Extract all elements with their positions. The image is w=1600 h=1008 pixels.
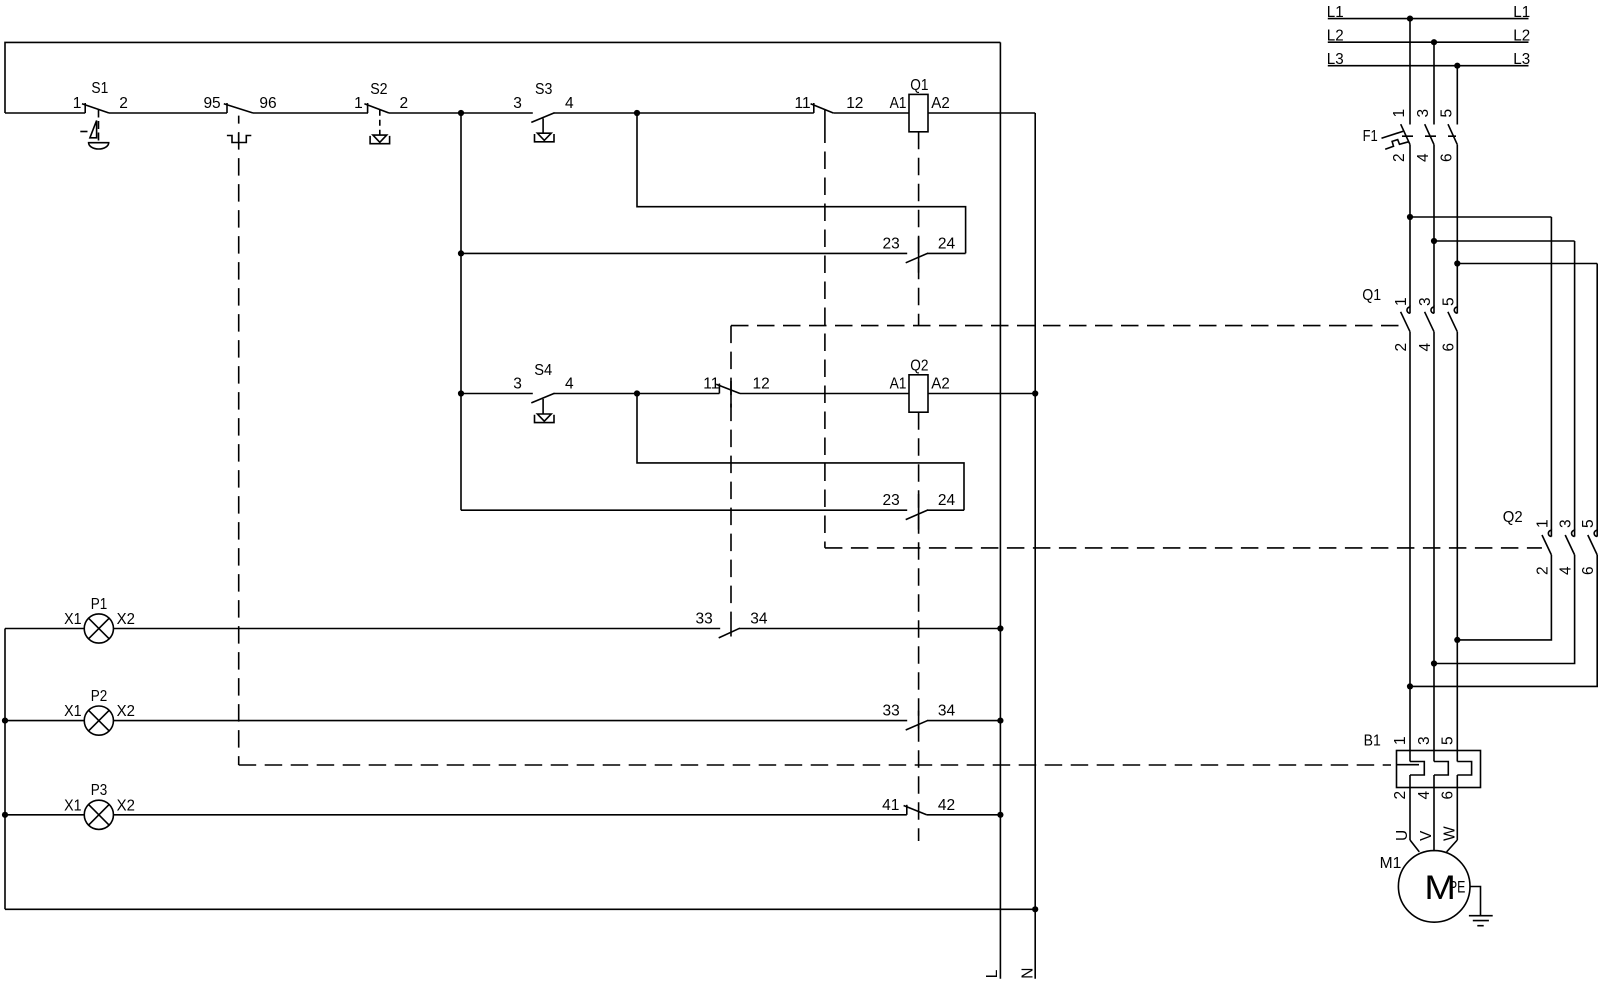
supply rail L1 [1328,18,1529,20]
auxiliary contact Q2 23-24 (NO) latch rung2 [906,510,928,520]
contactor Q2 power contacts, 3 poles [1550,529,1552,537]
mechanical linkage dashed: Q1 horizontal to power contacts [731,325,1401,327]
svg-text:X1: X1 [64,611,81,628]
mechanical linkage dashed: Q2 coil down through latch2, P2, P3 [918,412,920,841]
wire: P1 rung right segment to L rail [739,628,1000,630]
wire: P3 rung left segment [5,814,84,816]
svg-text:S4: S4 [534,362,552,379]
indicator lamp P1 [84,614,113,643]
wire: rung1 S1 to F1 aux 95 [109,112,227,114]
node: L1 tap [1407,16,1413,22]
wire: rung2 to coil Q2 [740,393,909,395]
svg-text:5: 5 [1438,109,1455,118]
auxiliary contact Q1 23-24 (NO) latch rung1 [906,253,928,263]
svg-text:W: W [1441,826,1458,841]
thermal overload actuator symbol on F1 aux [227,136,251,143]
svg-text:4: 4 [565,95,574,112]
svg-text:Q2: Q2 [910,358,928,375]
svg-text:U: U [1394,830,1411,841]
svg-text:96: 96 [259,95,276,112]
mechanical linkage dashed: Q1 coil down [918,132,920,326]
node: junction P3 rung / L rail [997,812,1003,818]
svg-text:4: 4 [1415,153,1432,162]
svg-text:24: 24 [938,492,956,509]
wire: P2 rung right segment to L rail [927,720,1000,722]
svg-text:X2: X2 [117,703,135,720]
node: junction rung1 / latch branch 1 [634,110,640,116]
node: junction rung2 / latch branch 2 [634,390,640,396]
contact 41-42 in P3 rung [906,805,908,815]
svg-text:V: V [1418,830,1435,841]
indicator lamp P2 [84,706,113,735]
wire: latch2 horizontal [461,509,907,511]
svg-text:L2: L2 [1513,27,1530,44]
wire: latch branch from rung2 node down and over [637,394,964,511]
overload relay F1 auxiliary NC contact 95-96 [226,103,228,113]
svg-text:Q1: Q1 [1362,287,1381,304]
supply rail L2 [1328,41,1529,43]
svg-text:X2: X2 [117,611,135,628]
wire: rung1 96 to S2 [253,112,368,114]
svg-text:L1: L1 [1513,4,1530,21]
wire: latch2 right segment [927,509,964,511]
wire: Q2 branch drops [1550,217,1552,529]
svg-text:33: 33 [696,611,713,628]
wire: P3 rung right segment to L rail [927,814,1001,816]
svg-text:1: 1 [1534,519,1551,528]
svg-text:L3: L3 [1513,51,1530,68]
wire: rung1 S2 to S3 [389,112,533,114]
wire: P1 rung left segment [5,628,84,630]
thermal overload relay B1 [1397,751,1481,788]
svg-text:B1: B1 [1364,733,1381,750]
svg-text:X2: X2 [117,797,135,814]
wire: latch branch from rung1 node down and over [637,113,966,253]
svg-text:2: 2 [1393,343,1410,352]
svg-text:41: 41 [882,797,899,814]
supply rail L3 [1328,65,1529,67]
svg-text:L2: L2 [1327,27,1344,44]
svg-text:1: 1 [73,95,82,112]
node: L3 tap [1454,63,1460,69]
node: Q2 return to phase 1 [1407,683,1413,689]
interlock contact Q1 11-12 (NC) in rung2 [718,384,720,394]
svg-text:Q2: Q2 [1503,509,1523,526]
wire: rung1 coil Q1 to N rail [928,112,1035,114]
F1 latch line and thermal release symbol [1382,131,1404,138]
node: junction left drop / P3 rung [2,812,8,818]
svg-text:42: 42 [938,797,955,814]
svg-text:4: 4 [565,375,574,392]
svg-text:1: 1 [1393,297,1410,306]
wire: F1 to Q1 contactor verticals [1409,145,1411,307]
svg-text:2: 2 [400,95,409,112]
wire: left lamp drop [4,629,6,910]
svg-text:3: 3 [1558,519,1575,528]
node: tap to Q2 branch phase 1 [1407,214,1413,220]
contactor coil Q1 [909,94,928,131]
svg-text:1: 1 [1391,109,1408,118]
wire: Q2 outputs crossing back to phases [1457,555,1551,640]
svg-text:34: 34 [938,703,956,720]
wire: left drop x461 rung1 to latch2 [460,113,462,510]
svg-text:S2: S2 [370,81,387,98]
wire: rung1 S3 to Q2 interlock [554,112,814,114]
svg-text:33: 33 [883,703,900,720]
wire: P2 rung middle segment [114,720,908,722]
svg-text:5: 5 [1439,736,1456,745]
wire: phase drops to F1 [1409,19,1411,125]
wire: motor PE to earth [1470,887,1481,916]
node: junction left drop / latch1 [458,250,464,256]
svg-text:Q1: Q1 [910,77,928,94]
linkage solid tail into B1 box [1397,764,1420,766]
wire: latch1 right segment [927,252,965,254]
svg-text:4: 4 [1416,791,1433,800]
F1 pole linkage dashed [1402,135,1456,137]
svg-text:6: 6 [1438,153,1455,162]
node: tap to Q2 branch phase 2 [1431,238,1437,244]
wire: B1 outputs to motor [1409,775,1411,840]
wire: latch1 horizontal [461,252,907,254]
wire: bottom return to N [5,908,1035,910]
stop button S2 (NC) [367,103,369,113]
svg-text:X1: X1 [64,797,81,814]
wire: P2 rung left segment [5,720,84,722]
node: junction left drop / rung2 [458,390,464,396]
svg-text:95: 95 [203,95,220,112]
mechanical linkage dashed: Q2 from rung1 interlock down [824,126,826,548]
svg-text:6: 6 [1439,791,1456,800]
indicator lamp P3 [84,800,113,829]
node: Q2 return to phase 2 [1431,660,1437,666]
svg-text:1: 1 [354,95,363,112]
svg-text:N: N [1020,967,1037,978]
svg-text:11: 11 [795,95,811,112]
svg-text:2: 2 [1534,566,1551,575]
svg-text:2: 2 [1392,791,1409,800]
node: Q2 return to phase 3 [1454,637,1460,643]
wire: P1 rung middle segment [114,628,721,630]
svg-text:11: 11 [703,375,719,392]
node: junction P1 rung / L rail [997,625,1003,631]
motor protection breaker F1, 3 poles [1401,124,1410,144]
B1 heater element pole at x=1457.3 [1457,762,1471,776]
svg-text:23: 23 [883,492,900,509]
node: junction P2 rung / L rail [997,718,1003,724]
svg-text:6: 6 [1580,566,1597,575]
svg-text:5: 5 [1580,519,1597,528]
svg-text:A2: A2 [931,95,950,112]
svg-text:L: L [984,969,1001,978]
node: junction rung1 / left drop wire [458,110,464,116]
svg-text:3: 3 [1415,109,1432,118]
B1 heater element pole at x=1434 [1434,762,1448,776]
node: junction left drop / P2 rung [2,718,8,724]
wire: rung1 to coil Q1 [833,112,909,114]
svg-text:A1: A1 [890,375,907,392]
wire: rung2 S4 to Q1 interlock [554,393,720,395]
svg-text:6: 6 [1440,343,1457,352]
wire: taps across to Q2 branch [1410,216,1551,218]
contact 33-34 in P2 rung [906,720,928,730]
motor M1 [1398,851,1470,923]
mechanical linkage dashed: F1 aux down to B1 [238,116,240,765]
svg-text:S1: S1 [91,80,108,97]
wire: top frame from rung 1 up and across to L rail [5,42,1000,113]
svg-text:L3: L3 [1327,51,1344,68]
node: tap to Q2 branch phase 3 [1454,260,1460,266]
node: junction bottom / N rail [1032,906,1038,912]
emergency stop switch S1 (NC) [84,103,86,113]
svg-text:24: 24 [938,235,956,252]
svg-text:PE: PE [1449,878,1466,897]
contactor coil Q2 [909,375,928,412]
svg-text:F1: F1 [1363,128,1378,145]
svg-text:P3: P3 [91,782,108,799]
wire: rung1 segment to S1 [5,112,85,114]
svg-text:3: 3 [513,375,522,392]
wire: Q1 outputs down to B1 [1409,332,1411,762]
svg-text:S3: S3 [535,81,552,98]
contact 33-34 in P1 rung [719,628,740,638]
node: L2 tap [1431,39,1437,45]
svg-text:5: 5 [1440,297,1457,306]
wire: N rail vertical [1034,113,1036,979]
B1 heater element pole at x=1410 [1410,762,1424,776]
svg-text:4: 4 [1558,566,1575,575]
svg-text:P2: P2 [91,688,108,705]
svg-text:3: 3 [1417,297,1434,306]
start button S4 (NO) [531,393,554,403]
svg-text:23: 23 [883,235,900,252]
wire: L rail vertical [999,42,1001,978]
mechanical linkage dashed: Q2 horizontal to power contacts [825,547,1542,549]
mechanical linkage dashed: Q1 down to rung2 interlock and P1 contact [730,326,732,619]
wire: rung2 coil Q2 to N rail [928,393,1035,395]
svg-text:34: 34 [750,611,768,628]
svg-text:P1: P1 [91,596,108,613]
wire: rung2 from left drop to S4 [461,393,533,395]
interlock contact Q2 11-12 (NC) in rung1 [813,103,815,113]
svg-text:12: 12 [846,95,863,112]
svg-text:3: 3 [513,95,522,112]
svg-text:4: 4 [1417,343,1434,352]
svg-text:1: 1 [1392,736,1409,745]
wire: P3 rung middle segment [114,814,907,816]
node: junction rung2 / N rail [1032,390,1038,396]
svg-text:A1: A1 [890,95,907,112]
svg-text:2: 2 [119,95,128,112]
ground symbol [1469,915,1493,917]
svg-text:M1: M1 [1380,855,1402,872]
svg-text:2: 2 [1391,153,1408,162]
contactor Q1 power contacts, 3 poles [1409,306,1411,314]
svg-text:L1: L1 [1327,4,1344,21]
start button S3 (NO) [531,113,554,123]
svg-text:3: 3 [1416,736,1433,745]
svg-text:X1: X1 [64,703,81,720]
svg-text:12: 12 [753,375,770,392]
svg-text:A2: A2 [931,375,950,392]
